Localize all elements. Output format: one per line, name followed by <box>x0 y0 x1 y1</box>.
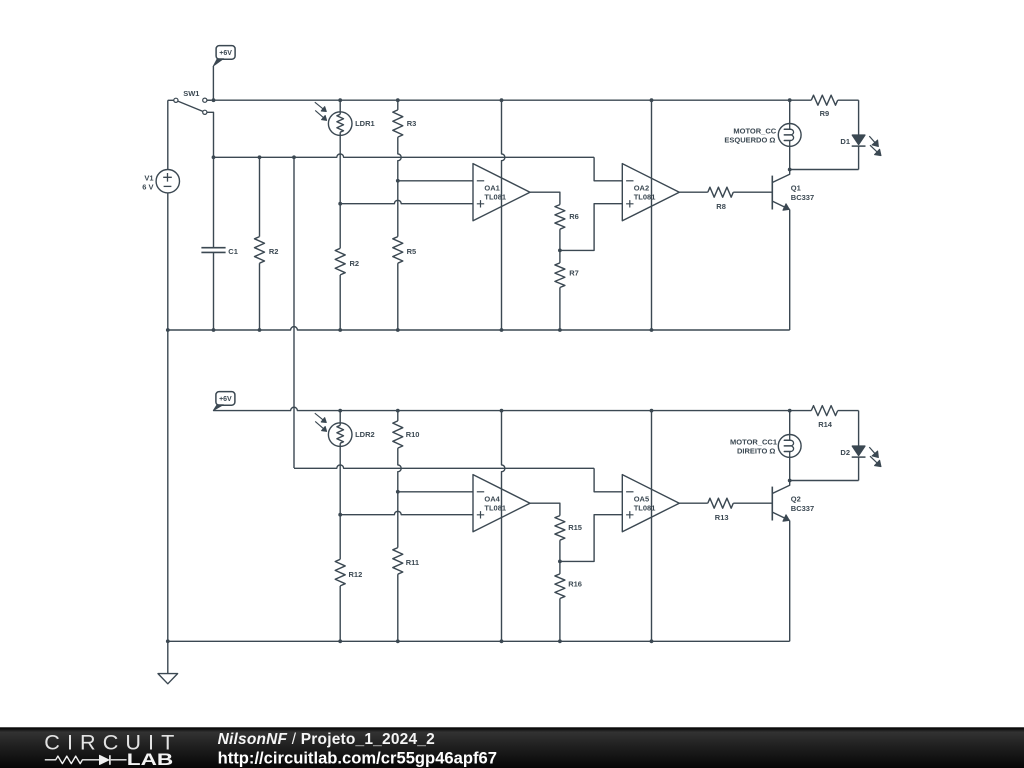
capacitor C1 <box>201 157 237 330</box>
svg-text:R6: R6 <box>569 212 579 221</box>
wire top +6V bus <box>207 99 812 101</box>
wire R8 to Q1 base <box>733 191 772 193</box>
transistor Q2 <box>772 481 814 522</box>
wire divider to OA1 plus <box>340 200 473 203</box>
svg-text:R13: R13 <box>715 513 729 522</box>
svg-text:OA4: OA4 <box>484 495 500 504</box>
resistor R2 (left) <box>255 157 279 330</box>
resistor R7 <box>555 250 579 330</box>
svg-text:TL081: TL081 <box>484 192 506 201</box>
voltage source V1 <box>142 100 179 193</box>
svg-text:R3: R3 <box>407 119 417 128</box>
resistor R14 <box>811 406 837 429</box>
svg-text:OA2: OA2 <box>634 184 649 193</box>
wire OA1 output <box>530 192 560 204</box>
svg-text:http://circuitlab.com/cr55gp46: http://circuitlab.com/cr55gp46apf67 <box>218 748 497 767</box>
svg-text:6 V: 6 V <box>142 182 153 191</box>
svg-text:V1: V1 <box>144 173 153 182</box>
wire OA1 supply cross <box>502 100 505 330</box>
transistor Q1 <box>772 170 814 211</box>
wire SW1 upper stub <box>207 99 211 101</box>
wire Q2 emitter <box>789 521 791 642</box>
op-amp OA1 <box>473 164 530 221</box>
svg-text:Q2: Q2 <box>791 494 801 503</box>
wire node to OA4 minus <box>398 491 473 493</box>
svg-text:R10: R10 <box>406 430 420 439</box>
ground <box>158 641 178 684</box>
svg-text:C1: C1 <box>228 247 238 256</box>
resistor R10 <box>393 411 420 449</box>
photoresistor LDR2 <box>315 411 375 447</box>
wire R10 to node <box>398 448 401 492</box>
resistor R12 <box>335 559 362 641</box>
wire bus2 lower section <box>294 465 594 468</box>
wire SW1 left stub <box>168 99 174 101</box>
svg-text:LDR1: LDR1 <box>355 119 375 128</box>
switch SW1 <box>174 89 207 114</box>
svg-text:BC337: BC337 <box>791 504 814 513</box>
svg-text:NilsonNF / Projeto_1_2024_2: NilsonNF / Projeto_1_2024_2 <box>218 731 435 748</box>
motor MOTOR_CC <box>724 100 801 169</box>
svg-text:TL081: TL081 <box>484 503 506 512</box>
wire OA5 output <box>679 502 708 504</box>
wire R6 R7 node to OA2 plus <box>560 204 622 251</box>
wire R3 to node <box>398 137 401 181</box>
svg-text:R12: R12 <box>349 570 363 579</box>
wire divider to OA4 plus <box>340 511 473 514</box>
resistor R8 <box>708 187 734 211</box>
resistor R13 <box>708 498 734 522</box>
wire LDR1 to R2 divider <box>339 135 341 248</box>
wire LDR2 to R12 divider <box>339 446 341 559</box>
svg-text:R9: R9 <box>820 109 830 118</box>
wire R15 R16 node to OA5 plus <box>560 515 622 562</box>
svg-text:D2: D2 <box>840 448 850 457</box>
svg-text:R15: R15 <box>568 523 582 532</box>
svg-text:MOTOR_CC1: MOTOR_CC1 <box>730 438 777 447</box>
op-amp OA5 <box>622 475 679 532</box>
svg-text:D1: D1 <box>840 137 850 146</box>
wire R13 to Q2 base <box>733 502 772 504</box>
wire long interconnect <box>293 157 295 468</box>
wire OA2 output <box>679 191 708 193</box>
svg-text:OA5: OA5 <box>634 495 649 504</box>
wire R14 to D2 rail <box>838 410 859 412</box>
svg-text:MOTOR_CC: MOTOR_CC <box>733 127 776 136</box>
wire R9 to D1 rail <box>838 99 859 101</box>
motor MOTOR_CC1 <box>730 411 801 481</box>
wire bus2 corner to OA2 minus <box>594 157 622 181</box>
svg-text:SW1: SW1 <box>183 89 199 98</box>
resistor R16 <box>555 561 582 641</box>
svg-text:OA1: OA1 <box>484 184 499 193</box>
svg-text:DIREITO Ω: DIREITO Ω <box>737 446 775 455</box>
resistor R9 <box>811 95 837 118</box>
wire bottom +6V bus <box>213 407 811 410</box>
power flag +6V (bottom) <box>213 392 235 411</box>
resistor R5 <box>393 181 416 330</box>
wire OA4 output <box>530 503 560 515</box>
svg-text:R16: R16 <box>568 579 582 588</box>
svg-text:R5: R5 <box>407 247 417 256</box>
op-amp OA4 <box>473 475 530 532</box>
power flag +6V (top) <box>213 46 235 67</box>
wire middle bus (0V top) <box>168 327 790 330</box>
wire OA5 supply cross <box>651 411 653 642</box>
wire V1 to ground rail <box>167 193 169 641</box>
svg-text:R8: R8 <box>716 202 726 211</box>
led D2 <box>840 411 881 481</box>
wire SW1 lower stub to bus2 <box>207 112 214 157</box>
svg-text:R11: R11 <box>406 558 419 567</box>
svg-text:R2: R2 <box>269 247 279 256</box>
svg-text:R14: R14 <box>818 420 833 429</box>
wire bus2 (switched +6V) <box>214 154 595 157</box>
wire collector node line <box>790 169 859 171</box>
svg-text:R7: R7 <box>569 268 579 277</box>
wire +6V flag to top bus <box>212 66 214 100</box>
resistor R3 <box>393 100 416 137</box>
resistor R2 (divider) <box>335 248 359 330</box>
svg-text:+6V: +6V <box>219 50 232 57</box>
svg-text:Q1: Q1 <box>791 183 801 192</box>
resistor R11 <box>393 492 419 642</box>
wire node to OA1 minus <box>398 180 473 182</box>
photoresistor LDR1 <box>315 100 375 135</box>
svg-text:+6V: +6V <box>219 396 232 403</box>
svg-text:R2: R2 <box>350 259 360 268</box>
svg-text:ESQUERDO Ω: ESQUERDO Ω <box>724 135 775 144</box>
wire Q1 emitter <box>789 210 791 331</box>
svg-text:LAB: LAB <box>127 750 173 768</box>
wire bus2b corner to OA5 minus <box>594 468 622 492</box>
op-amp OA2 <box>622 164 679 221</box>
wire OA4 supply cross <box>502 411 505 642</box>
resistor R15 <box>555 516 582 562</box>
led D1 <box>840 100 881 169</box>
svg-text:BC337: BC337 <box>791 193 814 202</box>
svg-text:LDR2: LDR2 <box>355 430 375 439</box>
resistor R6 <box>555 205 579 251</box>
wire bottom bus (0V) <box>168 640 790 642</box>
wire OA2 supply cross <box>651 100 653 330</box>
wire collector node line 2 <box>790 480 859 482</box>
footer bar <box>0 727 1024 768</box>
